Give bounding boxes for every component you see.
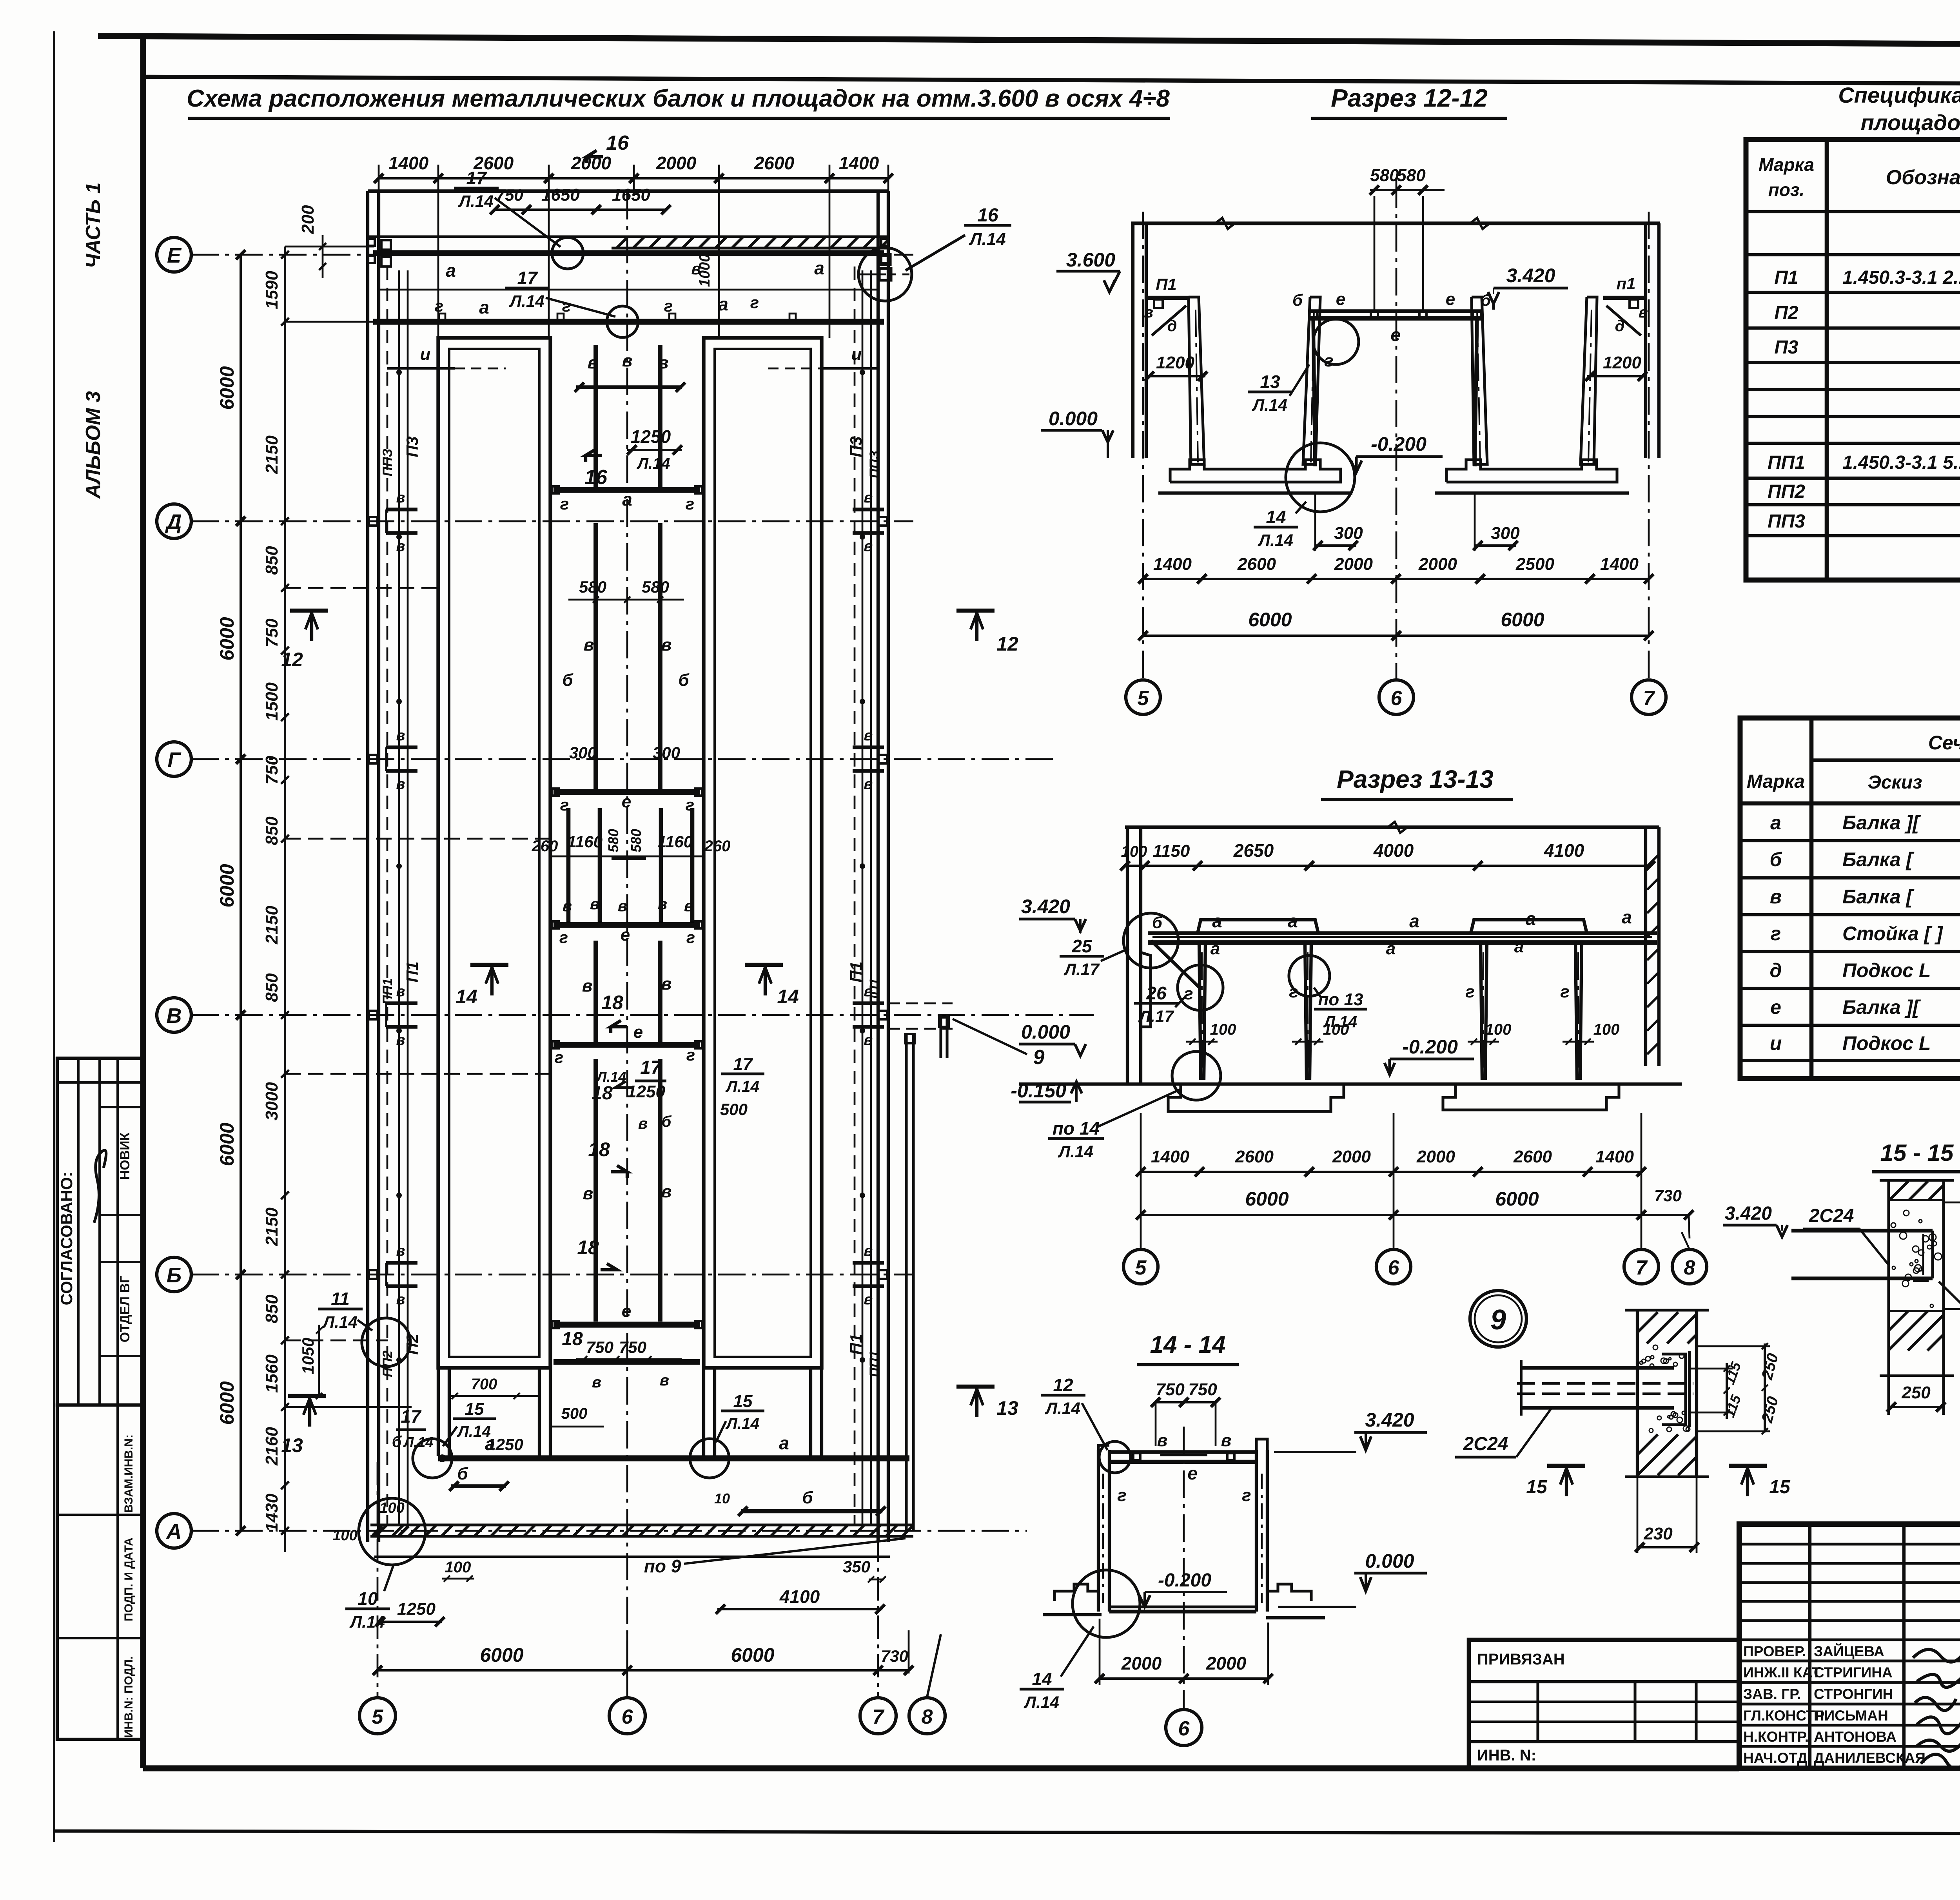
svg-text:16: 16 — [606, 132, 629, 154]
svg-text:1.450.3-3.1 2.1.1.0.0 -19: 1.450.3-3.1 2.1.1.0.0 -19 — [1842, 267, 1960, 288]
svg-text:а: а — [1409, 911, 1419, 931]
svg-text:в: в — [864, 1291, 873, 1308]
svg-text:в: в — [661, 974, 672, 994]
svg-text:2160: 2160 — [262, 1427, 281, 1466]
node9 beam — [1521, 1366, 1674, 1369]
title block left extension — [1469, 1640, 1739, 1768]
frame second top line — [143, 77, 1960, 85]
svg-text:1000: 1000 — [697, 254, 713, 287]
svg-text:Балка ][: Балка ][ — [1842, 996, 1921, 1018]
svg-text:100: 100 — [445, 1559, 471, 1576]
d14 node circle 14 — [1073, 1570, 1140, 1637]
svg-text:д: д — [1770, 959, 1782, 981]
plan top hatched platform strip — [612, 247, 888, 249]
svg-text:100: 100 — [1323, 1021, 1349, 1038]
plan corridor beam e1 — [554, 487, 700, 493]
plan label 9 leader — [953, 1019, 1027, 1054]
svg-text:2000: 2000 — [656, 153, 697, 173]
svg-text:Балка [: Балка [ — [1842, 886, 1915, 908]
svg-text:а: а — [446, 260, 456, 281]
svg-text:в: в — [658, 896, 667, 913]
svg-text:18: 18 — [562, 1329, 583, 1349]
svg-text:в: в — [396, 1291, 405, 1308]
sheet edge left line — [53, 31, 55, 1842]
svg-text:1400: 1400 — [839, 153, 879, 173]
svg-text:2150: 2150 — [262, 1207, 281, 1246]
svg-text:Л.14: Л.14 — [1258, 531, 1293, 549]
svg-text:2000: 2000 — [1121, 1653, 1162, 1673]
svg-text:-0.200: -0.200 — [1371, 433, 1426, 455]
d14 axis circle 6 — [1183, 1427, 1185, 1709]
svg-text:6000: 6000 — [480, 1644, 523, 1666]
svg-text:1590: 1590 — [262, 271, 281, 309]
svg-text:в: в — [1770, 886, 1782, 908]
svg-text:14: 14 — [777, 986, 799, 1008]
svg-text:750: 750 — [586, 1338, 613, 1356]
svg-text:в: в — [592, 1374, 601, 1391]
svg-text:в: в — [396, 490, 405, 506]
svg-text:730: 730 — [881, 1647, 908, 1665]
svg-text:а: а — [1526, 908, 1536, 929]
d15 concrete dots — [1930, 1304, 1933, 1307]
svg-text:СТРИГИНА: СТРИГИНА — [1814, 1664, 1893, 1681]
svg-text:в: в — [618, 897, 627, 915]
svg-text:а: а — [814, 258, 824, 278]
svg-text:18: 18 — [601, 992, 623, 1013]
svg-text:Л.14: Л.14 — [457, 1422, 491, 1440]
svg-text:Л.17: Л.17 — [1063, 960, 1100, 979]
svg-text:в: в — [396, 727, 405, 744]
d14 bottom floor — [1054, 1584, 1098, 1601]
frame left thick line — [140, 39, 146, 1768]
svg-text:8: 8 — [1684, 1256, 1695, 1279]
s13 columns — [1199, 943, 1201, 1080]
plan hatched bottom band — [370, 1523, 913, 1526]
plan horizontal axis lines — [191, 254, 913, 256]
plan dim 200 — [319, 243, 326, 250]
svg-text:Л.14: Л.14 — [725, 1414, 759, 1432]
svg-text:СОГЛАСОВАНО:: СОГЛАСОВАНО: — [57, 1172, 76, 1305]
s12 top wall line — [1131, 221, 1660, 225]
svg-text:300: 300 — [1491, 524, 1520, 543]
svg-text:10: 10 — [714, 1490, 730, 1507]
plan corridor vertical beams upper — [593, 345, 598, 488]
svg-text:5: 5 — [372, 1706, 384, 1728]
svg-text:ПП1: ПП1 — [380, 978, 395, 1005]
svg-text:26: 26 — [1146, 983, 1167, 1003]
svg-text:17: 17 — [517, 268, 538, 288]
svg-text:2С24: 2С24 — [1463, 1434, 1508, 1454]
svg-text:Д: Д — [165, 510, 182, 534]
svg-text:1250: 1250 — [397, 1599, 436, 1619]
svg-text:13: 13 — [1260, 372, 1280, 392]
svg-text:3.420: 3.420 — [1021, 896, 1070, 917]
svg-text:по 9: по 9 — [644, 1556, 681, 1576]
svg-text:ИНЖ.II КАТ: ИНЖ.II КАТ — [1743, 1664, 1821, 1681]
svg-text:6000: 6000 — [731, 1644, 774, 1666]
svg-text:12: 12 — [996, 633, 1018, 655]
svg-text:по 14: по 14 — [1053, 1118, 1100, 1139]
svg-text:Балка ][: Балка ][ — [1842, 812, 1921, 834]
svg-text:Подкос L: Подкос L — [1842, 959, 1931, 981]
plan corridor beam e5 — [554, 1322, 700, 1327]
svg-text:350: 350 — [843, 1557, 870, 1576]
svg-text:г: г — [562, 297, 571, 315]
plan corridor beam e2 — [554, 789, 700, 795]
svg-text:Балка [: Балка [ — [1842, 848, 1915, 870]
svg-text:2600: 2600 — [1513, 1147, 1552, 1166]
svg-text:ПРОВЕР.: ПРОВЕР. — [1743, 1643, 1806, 1659]
frame bottom thick partial line — [143, 1765, 1739, 1771]
svg-text:и: и — [851, 344, 862, 364]
svg-text:4100: 4100 — [1544, 840, 1584, 861]
svg-text:3000: 3000 — [262, 1082, 281, 1120]
svg-text:а: а — [1514, 937, 1524, 956]
svg-text:д: д — [1167, 317, 1177, 335]
s12 right tank base — [1446, 460, 1617, 482]
svg-text:в: в — [864, 1032, 873, 1048]
svg-text:1430: 1430 — [262, 1494, 281, 1532]
svg-text:18: 18 — [577, 1236, 599, 1258]
svg-text:Обозначение: Обозначение — [1886, 166, 1960, 189]
plan tank label 14 left — [470, 963, 508, 967]
plan left strip lines — [387, 267, 388, 1525]
d14 dim 2000 2000 — [1100, 1677, 1268, 1680]
signature squiggles — [1913, 1650, 1960, 1769]
svg-text:6000: 6000 — [216, 1381, 238, 1425]
svg-text:8: 8 — [922, 1706, 933, 1728]
svg-text:а: а — [779, 1433, 789, 1453]
plan corridor 1160 cluster — [566, 808, 571, 922]
svg-text:200: 200 — [298, 205, 318, 234]
plan top inner line — [368, 235, 888, 238]
svg-text:260: 260 — [532, 838, 558, 855]
svg-text:П3: П3 — [403, 436, 421, 457]
svg-text:580: 580 — [605, 829, 621, 852]
svg-text:6000: 6000 — [1501, 609, 1544, 631]
plan tank label 14 right — [745, 963, 783, 967]
plan top dim chain main — [379, 177, 888, 179]
svg-text:б: б — [678, 671, 690, 690]
svg-text:1.450.3-3.1 5.1.0.1.0 -13: 1.450.3-3.1 5.1.0.1.0 -13 — [1842, 452, 1960, 473]
svg-text:5: 5 — [1138, 687, 1149, 710]
s13 main beam — [1148, 931, 1657, 935]
svg-text:а: а — [1622, 907, 1632, 927]
svg-text:0.000: 0.000 — [1365, 1550, 1414, 1572]
svg-text:б: б — [1481, 291, 1491, 309]
svg-text:1400: 1400 — [1153, 555, 1192, 574]
svg-text:750: 750 — [619, 1338, 646, 1356]
node9 circle label — [1470, 1291, 1526, 1347]
svg-text:1150: 1150 — [1153, 841, 1190, 861]
svg-text:4100: 4100 — [779, 1586, 820, 1607]
svg-text:Л.14: Л.14 — [1252, 396, 1287, 414]
d15 wall — [1887, 1180, 1890, 1415]
svg-text:в: в — [582, 976, 593, 995]
node9 wall — [1636, 1310, 1639, 1477]
svg-text:е: е — [622, 1302, 631, 1321]
svg-text:в: в — [638, 1115, 648, 1132]
svg-text:7: 7 — [1636, 1256, 1648, 1279]
svg-text:в: в — [1144, 304, 1153, 321]
svg-text:в: в — [584, 635, 594, 654]
svg-text:в: в — [661, 1182, 672, 1201]
svg-text:б: б — [1770, 848, 1783, 870]
svg-text:11: 11 — [331, 1289, 350, 1309]
svg-text:1500: 1500 — [262, 682, 281, 721]
svg-text:Е: Е — [167, 244, 182, 267]
plan left dim chain subdivisions — [284, 247, 286, 1552]
svg-text:100: 100 — [1121, 843, 1147, 860]
svg-text:е: е — [1770, 996, 1781, 1018]
plan cut 16 top — [586, 150, 603, 157]
svg-text:850: 850 — [262, 973, 281, 1002]
svg-text:Схема расположения металлическ: Схема расположения металлических балок и… — [187, 85, 1170, 112]
svg-text:750: 750 — [262, 618, 281, 647]
svg-text:г: г — [559, 928, 568, 946]
svg-text:2600: 2600 — [1235, 1147, 1274, 1166]
svg-text:6000: 6000 — [1245, 1188, 1289, 1210]
svg-text:7: 7 — [873, 1706, 885, 1728]
plan corridor beam e3 — [554, 922, 700, 928]
s12 axis circles — [1126, 680, 1160, 714]
d14 top corner steps — [1098, 1445, 1109, 1450]
svg-text:П3: П3 — [847, 436, 865, 457]
plan corridor beam e4 — [554, 1042, 700, 1048]
svg-text:100: 100 — [332, 1527, 357, 1544]
svg-text:е: е — [1390, 325, 1401, 345]
svg-text:ДАНИЛЕВСКАЯ: ДАНИЛЕВСКАЯ — [1814, 1750, 1926, 1766]
svg-text:Л.14: Л.14 — [1058, 1142, 1093, 1161]
s13 dim chain small — [1141, 1171, 1641, 1173]
svg-text:750: 750 — [262, 756, 281, 785]
svg-text:в: в — [1639, 304, 1648, 321]
svg-text:10: 10 — [358, 1588, 378, 1609]
svg-text:3.420: 3.420 — [1725, 1203, 1772, 1224]
plan left wall — [366, 191, 369, 1542]
svg-text:500: 500 — [561, 1405, 588, 1422]
plan platform edge line below E — [380, 289, 878, 291]
svg-text:500: 500 — [720, 1100, 748, 1119]
svg-text:и: и — [420, 344, 431, 364]
svg-text:14: 14 — [1266, 507, 1286, 527]
svg-text:Марка: Марка — [1747, 771, 1805, 792]
svg-text:ПРИВЯЗАН: ПРИВЯЗАН — [1477, 1651, 1565, 1668]
plan cut 16 bottom — [586, 449, 602, 455]
svg-text:0.000: 0.000 — [1049, 408, 1098, 430]
svg-text:г: г — [686, 928, 695, 946]
svg-text:е: е — [1187, 1463, 1198, 1483]
plan bottom b beam right — [741, 1509, 882, 1514]
svg-text:в: в — [396, 776, 405, 792]
svg-text:2600: 2600 — [1237, 555, 1276, 574]
plan top right corner squares — [381, 240, 391, 250]
s13 node circle 25 — [1123, 913, 1178, 968]
svg-text:Спецификация к схеме распол: Спецификация к схеме расположения металл… — [1838, 83, 1960, 107]
svg-text:260: 260 — [704, 838, 731, 855]
svg-text:750: 750 — [1156, 1380, 1185, 1399]
plan top beam a1 — [373, 250, 884, 256]
s13 node circle 26 — [1178, 965, 1223, 1010]
svg-text:в: в — [864, 538, 873, 555]
svg-text:ППЗ: ППЗ — [867, 450, 882, 478]
frame top thick line — [98, 36, 1960, 46]
svg-text:7: 7 — [1643, 687, 1655, 710]
svg-text:580: 580 — [579, 578, 606, 596]
svg-text:ПИСЬМАН: ПИСЬМАН — [1814, 1708, 1888, 1724]
svg-text:1400: 1400 — [1595, 1147, 1634, 1166]
svg-text:Разрез 12-12: Разрез 12-12 — [1331, 84, 1488, 112]
svg-text:ПП1: ПП1 — [1768, 452, 1805, 473]
svg-text:1650: 1650 — [612, 185, 650, 205]
svg-text:17: 17 — [733, 1055, 753, 1074]
svg-text:НАЧ.ОТД.: НАЧ.ОТД. — [1743, 1750, 1811, 1766]
svg-text:АНТОНОВА: АНТОНОВА — [1814, 1729, 1896, 1745]
svg-text:Н.КОНТР.: Н.КОНТР. — [1743, 1729, 1809, 1745]
svg-text:1560: 1560 — [262, 1354, 281, 1393]
plan axis 6 vertical line — [626, 192, 628, 1681]
s13 curbs — [1198, 920, 1318, 933]
svg-text:9: 9 — [1033, 1046, 1045, 1069]
svg-text:П2: П2 — [403, 1334, 421, 1355]
svg-text:б: б — [662, 1113, 672, 1130]
svg-text:Г: Г — [167, 748, 181, 772]
svg-text:Эскиз: Эскиз — [1867, 772, 1922, 793]
plan section mark 13 right — [956, 1385, 995, 1389]
svg-text:1160: 1160 — [567, 832, 603, 851]
plan right wall — [877, 191, 880, 1542]
svg-text:1400: 1400 — [388, 153, 429, 173]
svg-text:в: в — [661, 635, 672, 654]
plan bottom axis circles — [359, 1698, 396, 1734]
svg-text:п1: п1 — [1616, 274, 1635, 293]
svg-text:П1: П1 — [1774, 267, 1798, 288]
svg-text:100: 100 — [1593, 1021, 1620, 1038]
plan section mark 13 left — [288, 1394, 326, 1398]
svg-text:а: а — [622, 489, 632, 509]
svg-text:6000: 6000 — [216, 1122, 238, 1166]
svg-text:а: а — [1212, 911, 1222, 931]
s13 dim chain 6000 730 — [1141, 1214, 1690, 1216]
s13 top dim chain — [1125, 865, 1650, 867]
s12 left tank base — [1170, 460, 1341, 482]
svg-text:П1: П1 — [403, 961, 421, 983]
svg-text:15 - 15: 15 - 15 — [1880, 1140, 1954, 1166]
svg-text:ППЗ: ППЗ — [380, 448, 395, 476]
plan leader circles 15 on beam a3 — [413, 1439, 452, 1478]
svg-text:300: 300 — [1334, 524, 1363, 543]
svg-text:14: 14 — [1032, 1669, 1052, 1689]
plan corridor verticals lower — [593, 1059, 598, 1322]
svg-text:580: 580 — [1397, 166, 1426, 185]
svg-text:2000: 2000 — [1416, 1147, 1455, 1166]
stamp signature squiggle — [94, 1150, 106, 1223]
svg-text:а: а — [479, 297, 489, 317]
svg-text:14 - 14: 14 - 14 — [1150, 1331, 1225, 1358]
svg-text:100: 100 — [379, 1500, 404, 1516]
svg-text:100: 100 — [1485, 1021, 1512, 1038]
svg-text:г: г — [560, 495, 569, 513]
svg-text:в: в — [396, 1243, 405, 1259]
plan right tank — [704, 338, 822, 1368]
svg-text:6000: 6000 — [216, 617, 238, 660]
svg-text:Л.14: Л.14 — [458, 192, 494, 210]
svg-text:в: в — [588, 353, 598, 372]
svg-text:е: е — [633, 1023, 643, 1042]
svg-text:в: в — [864, 776, 873, 792]
svg-text:Разрез 13-13: Разрез 13-13 — [1337, 765, 1494, 793]
svg-text:-0.200: -0.200 — [1402, 1036, 1458, 1058]
svg-text:2000: 2000 — [571, 153, 612, 173]
plan section mark 12 right — [956, 609, 995, 613]
svg-text:ПОДП. И ДАТА: ПОДП. И ДАТА — [122, 1537, 135, 1621]
plan bottom dim chain 6000 6000 730 — [377, 1669, 909, 1672]
s13 walls — [1126, 827, 1129, 1084]
svg-text:2С24: 2С24 — [1809, 1206, 1854, 1226]
s13 ground line — [1019, 1082, 1682, 1086]
svg-text:ПП2: ПП2 — [380, 1351, 395, 1377]
svg-text:1250: 1250 — [631, 426, 671, 447]
svg-text:2150: 2150 — [262, 435, 281, 474]
svg-text:15: 15 — [1526, 1477, 1548, 1498]
d15 beam 2C24 — [1791, 1229, 1933, 1232]
plan strip axis crossing beams — [386, 508, 417, 511]
svg-text:6000: 6000 — [216, 366, 238, 410]
svg-text:17: 17 — [401, 1406, 422, 1427]
svg-text:в: в — [622, 351, 633, 370]
s12 center columns — [1313, 318, 1315, 466]
svg-text:б: б — [1292, 291, 1303, 309]
svg-text:ВЗАМ.ИНВ.N:: ВЗАМ.ИНВ.N: — [122, 1434, 135, 1513]
svg-text:в: в — [396, 1032, 405, 1048]
svg-text:Л.14: Л.14 — [725, 1077, 759, 1095]
svg-text:Стойка [ ]: Стойка [ ] — [1842, 923, 1944, 945]
svg-text:Л.14: Л.14 — [1024, 1693, 1059, 1711]
svg-text:Л.14: Л.14 — [322, 1313, 358, 1331]
d14 top beam — [1109, 1450, 1256, 1454]
svg-text:е: е — [621, 925, 630, 945]
svg-text:б: б — [802, 1488, 813, 1507]
svg-text:ПП3: ПП3 — [1768, 511, 1805, 532]
svg-text:б: б — [457, 1464, 468, 1483]
svg-text:г: г — [664, 297, 673, 315]
svg-text:2150: 2150 — [262, 906, 281, 945]
s12 dim chain 6000 — [1143, 635, 1649, 637]
svg-text:700: 700 — [471, 1376, 497, 1393]
svg-text:е: е — [1336, 290, 1345, 309]
svg-text:2650: 2650 — [1233, 840, 1274, 861]
svg-text:а: а — [1770, 812, 1781, 834]
svg-text:3.420: 3.420 — [1365, 1409, 1414, 1431]
svg-text:5: 5 — [1135, 1256, 1147, 1279]
svg-text:д: д — [1615, 317, 1625, 335]
svg-text:2000: 2000 — [1206, 1653, 1247, 1673]
specification table grid — [1746, 140, 1960, 580]
svg-text:в: в — [660, 1372, 669, 1389]
svg-text:в: в — [583, 1184, 593, 1203]
svg-text:Л.17: Л.17 — [1138, 1007, 1174, 1026]
svg-text:Л.14: Л.14 — [969, 230, 1006, 249]
plan section mark 12 left — [290, 609, 328, 613]
left stamp box СОГЛАСОВАНО — [57, 1058, 143, 1405]
svg-text:580: 580 — [1370, 166, 1399, 185]
svg-text:580: 580 — [642, 578, 669, 596]
svg-text:16: 16 — [977, 205, 998, 226]
svg-text:750: 750 — [1188, 1380, 1217, 1399]
svg-text:г: г — [1117, 1486, 1126, 1505]
s12 dim chain small — [1143, 578, 1649, 580]
svg-text:3.600: 3.600 — [1066, 249, 1115, 271]
